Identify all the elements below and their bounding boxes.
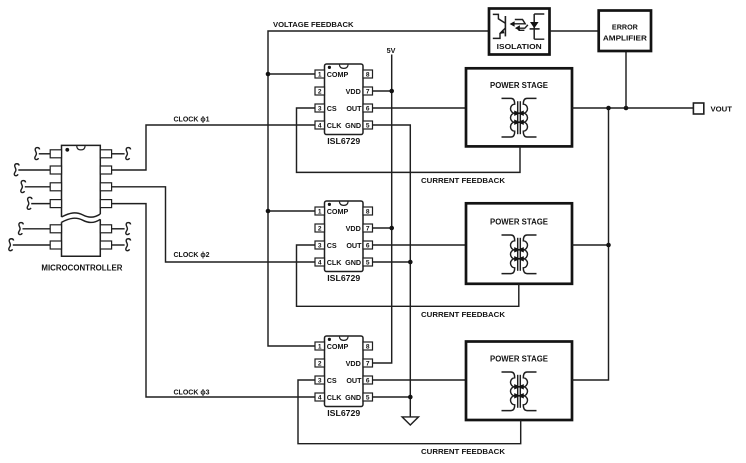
wire stub pin L2	[14, 164, 50, 176]
IC U2 ISL6729	[315, 64, 373, 146]
wire error amplifier to output	[625, 51, 627, 108]
svg-text:VOUT: VOUT	[711, 105, 733, 114]
microcontroller pin L2	[50, 166, 61, 174]
svg-text:POWER STAGE: POWER STAGE	[490, 355, 549, 364]
power stage 2	[466, 203, 572, 283]
svg-text:VOLTAGE FEEDBACK: VOLTAGE FEEDBACK	[273, 20, 354, 29]
microcontroller pin L3	[50, 183, 61, 191]
label MICROCONTROLLER	[41, 263, 122, 272]
wire CLOCK phi3 net	[112, 204, 315, 397]
isolation block U5	[489, 9, 550, 55]
ground	[402, 417, 418, 425]
wire current feedback 1	[297, 108, 521, 172]
power stage 3	[466, 342, 572, 421]
node junction bus top	[606, 106, 611, 111]
svg-text:CURRENT FEEDBACK: CURRENT FEEDBACK	[421, 447, 506, 456]
optocoupler light arrow 1	[510, 20, 526, 27]
wire stub pin L3	[21, 181, 50, 193]
microcontroller pin L5	[50, 225, 61, 233]
wire CLOCK phi1 net	[112, 125, 315, 170]
optocoupler LED	[530, 14, 545, 39]
power stage 1	[466, 68, 572, 146]
svg-text:MICROCONTROLLER: MICROCONTROLLER	[41, 263, 122, 272]
wire stub pin R5	[112, 223, 131, 235]
wire current feedback 2	[297, 245, 519, 306]
microcontroller pin R5	[100, 225, 111, 233]
label CURRENT FEEDBACK 3	[421, 447, 506, 456]
optocoupler phototransistor	[493, 14, 506, 38]
wire stub pin L4	[27, 197, 50, 209]
wire stub pin L1	[35, 148, 50, 160]
wire 5V rail	[373, 55, 392, 364]
wire OUT U3 to power stage 2	[373, 244, 467, 246]
node junction 5V-U2	[389, 89, 394, 94]
microcontroller U1 body (upper half)	[62, 145, 101, 217]
wire stub pin R6	[112, 239, 131, 251]
wire OUT U4 to power stage 3	[373, 379, 467, 381]
wire stub pin L5	[18, 223, 50, 235]
node junction 5V-U3	[389, 226, 394, 231]
microcontroller pin R4	[100, 200, 111, 208]
svg-text:AMPLIFIER: AMPLIFIER	[603, 33, 648, 42]
node junction VF-U3	[266, 209, 271, 214]
node junction error amp output	[624, 106, 629, 111]
svg-text:CLOCK ϕ2: CLOCK ϕ2	[174, 250, 210, 259]
wire VDD branch U2	[373, 90, 392, 92]
svg-text:POWER STAGE: POWER STAGE	[490, 81, 549, 90]
node junction VF-U2	[266, 72, 271, 77]
label CURRENT FEEDBACK 1	[421, 176, 506, 185]
wire COMP branch U3	[268, 210, 315, 212]
terminal VOUT	[693, 103, 703, 114]
wire VDD branch U3	[373, 227, 392, 229]
node junction GND-U4	[408, 395, 413, 400]
microcontroller pin R1	[100, 150, 111, 158]
svg-text:CURRENT FEEDBACK: CURRENT FEEDBACK	[421, 310, 506, 319]
wire isolation to error amplifier	[550, 30, 599, 32]
wire OUT U2 to power stage 1	[373, 107, 467, 109]
error amplifier block	[599, 11, 651, 52]
svg-text:CURRENT FEEDBACK: CURRENT FEEDBACK	[421, 176, 506, 185]
svg-text:ERROR: ERROR	[612, 23, 639, 32]
wire GND branch U3	[373, 261, 411, 263]
wire COMP branch U2	[268, 73, 315, 75]
wire GND rail	[373, 125, 411, 417]
wire CLOCK phi2 net	[112, 187, 315, 262]
microcontroller U1 body (lower half)	[62, 218, 101, 256]
svg-text:CLOCK ϕ3: CLOCK ϕ3	[174, 387, 210, 396]
svg-text:ISOLATION: ISOLATION	[497, 42, 542, 51]
svg-text:5V: 5V	[387, 46, 396, 55]
wire voltage feedback bus	[268, 31, 489, 346]
microcontroller pin R6	[100, 241, 111, 249]
microcontroller pin L1	[50, 150, 61, 158]
wire stub pin L6	[9, 239, 50, 251]
label CLOCK phi3	[174, 387, 210, 396]
wire power stage 2 output	[572, 244, 609, 246]
microcontroller pin R3	[100, 183, 111, 191]
svg-text:POWER STAGE: POWER STAGE	[490, 218, 549, 227]
wire output bus vertical	[572, 108, 609, 380]
label CURRENT FEEDBACK 2	[421, 310, 506, 319]
label CLOCK phi1	[174, 115, 210, 124]
wire GND branch U4	[373, 396, 411, 398]
IC U3 ISL6729	[315, 201, 373, 283]
microcontroller pin R2	[100, 166, 111, 174]
IC U4 ISL6729	[315, 336, 373, 418]
label 5V	[387, 46, 396, 55]
node junction GND-U3	[408, 260, 413, 265]
microcontroller pin L6	[50, 241, 61, 249]
label CLOCK phi2	[174, 250, 210, 259]
svg-text:CLOCK ϕ1: CLOCK ϕ1	[174, 115, 210, 124]
microcontroller pin L4	[50, 200, 61, 208]
label VOUT	[711, 105, 733, 114]
label VOLTAGE FEEDBACK	[273, 20, 354, 29]
node junction bus PS2	[606, 243, 611, 248]
optocoupler light arrow 2	[515, 25, 528, 31]
wire output bus horizontal to VOUT	[572, 107, 693, 109]
wire current feedback 3	[298, 380, 521, 444]
wire stub pin R1	[112, 148, 131, 160]
